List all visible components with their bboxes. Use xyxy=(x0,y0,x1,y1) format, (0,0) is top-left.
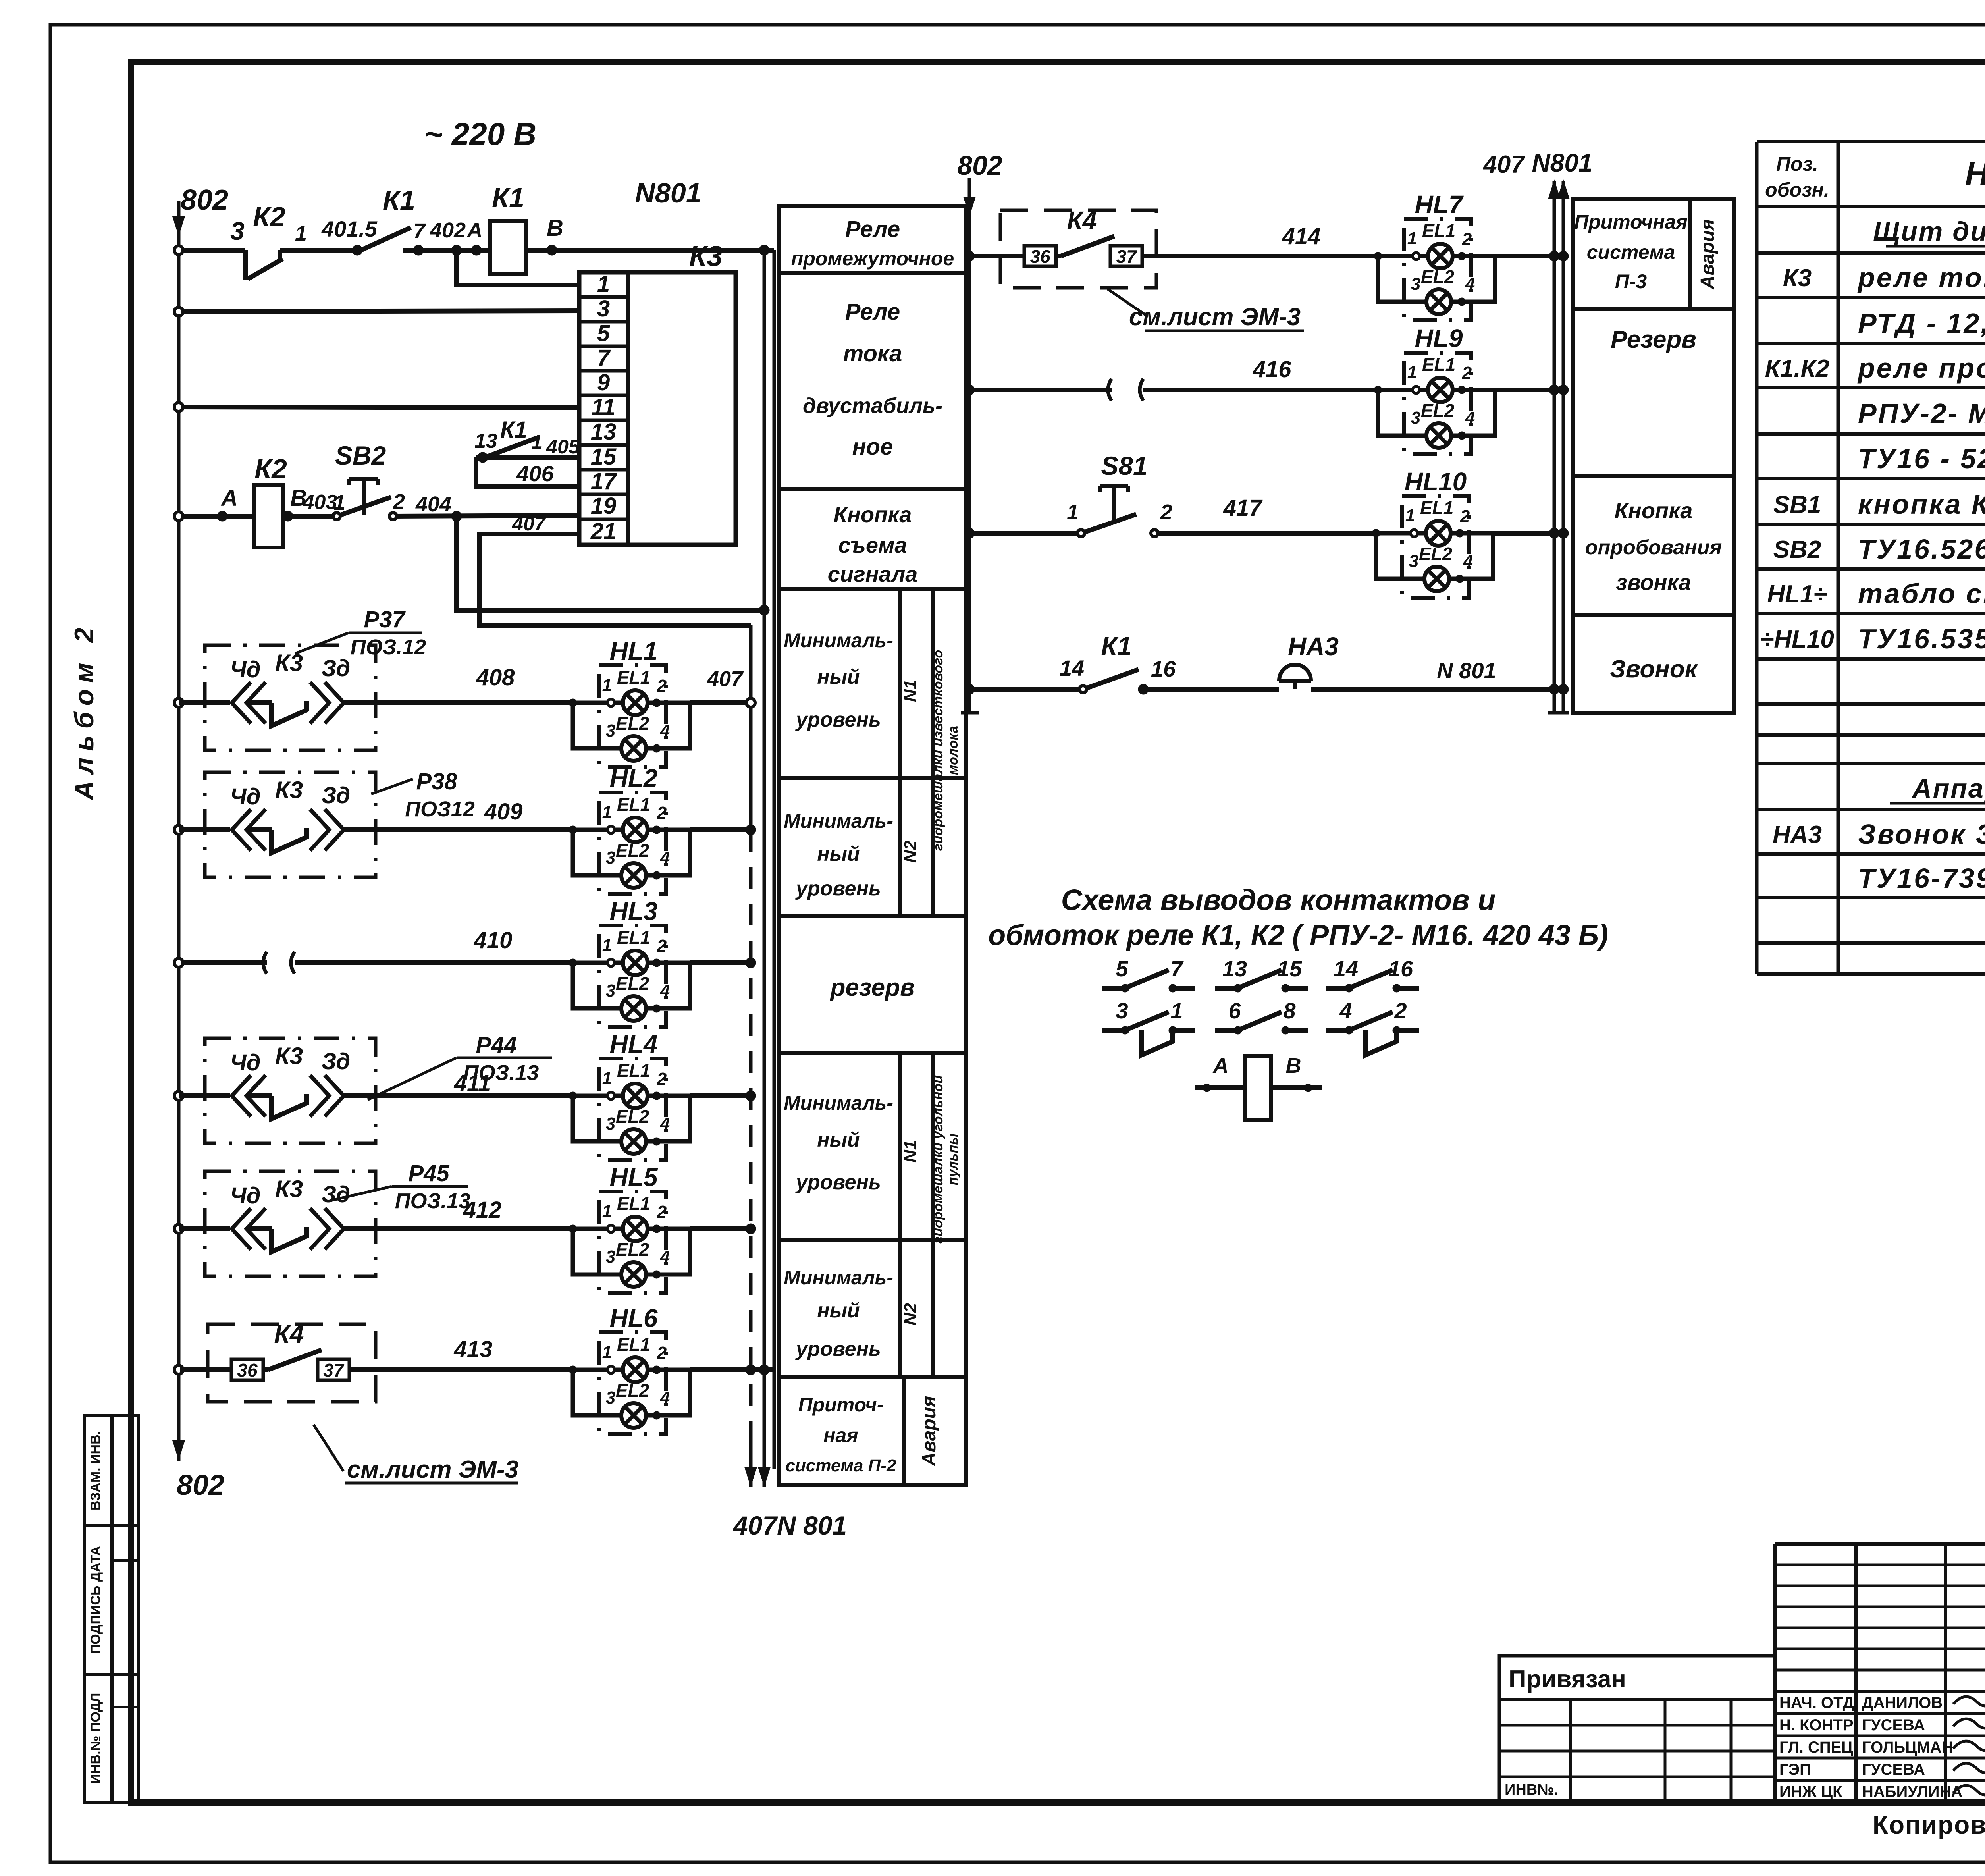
svg-text:ТУ16-739. 059-76: ТУ16-739. 059-76 xyxy=(1858,863,1985,894)
svg-text:К3: К3 xyxy=(689,241,723,272)
svg-text:кнопка КЕ-011 У3 исп.2: кнопка КЕ-011 У3 исп.2 xyxy=(1858,489,1985,520)
wire 408 to 407 line xyxy=(690,700,751,705)
svg-text:SВ2: SВ2 xyxy=(1773,536,1821,563)
contact K1 aux 13-405-15 xyxy=(476,455,579,460)
leader R45 poz.13 xyxy=(330,1186,392,1201)
wire 411 xyxy=(376,1093,573,1098)
svg-text:реле промежуточное: реле промежуточное xyxy=(1857,353,1985,384)
svg-text:гидромешалки известкового: гидромешалки известкового xyxy=(931,650,946,851)
lamp panel НL10 xyxy=(1372,496,1493,598)
svg-text:Поз.: Поз. xyxy=(1776,153,1818,175)
node bus row 409 xyxy=(174,825,183,834)
svg-text:414: 414 xyxy=(1282,224,1321,249)
svg-text:8: 8 xyxy=(1283,998,1296,1023)
svg-text:реле тока двустабильное: реле тока двустабильное xyxy=(1857,262,1985,293)
svg-text:звонка: звонка xyxy=(1616,570,1691,595)
wire 416 with break contact xyxy=(973,388,1112,392)
svg-text:НL7: НL7 xyxy=(1415,190,1464,219)
svg-text:Зд: Зд xyxy=(322,783,350,808)
svg-text:407: 407 xyxy=(512,513,546,535)
svg-text:Авария: Авария xyxy=(1697,219,1718,290)
svg-text:2: 2 xyxy=(1160,500,1172,524)
svg-text:А: А xyxy=(220,485,238,511)
lamp panel НL1 xyxy=(569,665,690,767)
svg-text:19: 19 xyxy=(591,493,617,519)
svg-text:ГУСЕВА: ГУСЕВА xyxy=(1862,1761,1925,1778)
svg-text:7: 7 xyxy=(1170,956,1184,981)
wire 417 to N801 xyxy=(1493,531,1563,536)
left margin stamp column xyxy=(85,1416,138,1803)
svg-text:Р44: Р44 xyxy=(476,1032,516,1058)
svg-text:ТУ16.526.407-79: ТУ16.526.407-79 xyxy=(1858,534,1985,565)
wire 410 to 407 line xyxy=(690,960,751,965)
lamp panel НL4 xyxy=(569,1059,690,1160)
wire 413 to N801 xyxy=(690,1367,774,1372)
leader R37 poz.12 xyxy=(295,633,349,654)
svg-text:410: 410 xyxy=(474,927,513,953)
bus 802 right xyxy=(968,178,971,713)
svg-text:ное: ное xyxy=(852,434,893,460)
svg-text:3: 3 xyxy=(597,296,610,322)
wire 417 xyxy=(1158,531,1376,536)
svg-text:Авария: Авария xyxy=(919,1396,940,1467)
svg-text:уровень: уровень xyxy=(795,708,881,731)
svg-text:система П-2: система П-2 xyxy=(786,1456,896,1475)
svg-text:1: 1 xyxy=(333,491,345,515)
wire K2 coil to SB2 xyxy=(283,514,335,519)
branch row1 to K3 terminal 1 xyxy=(457,250,579,285)
parts list table xyxy=(1755,142,1759,974)
svg-text:обмоток реле К1, К2 ( РПУ-2- М: обмоток реле К1, К2 ( РПУ-2- М16. 420 43… xyxy=(988,920,1608,951)
svg-text:НL6: НL6 xyxy=(610,1304,658,1332)
svg-text:Р38: Р38 xyxy=(416,769,457,794)
svg-text:Чд: Чд xyxy=(230,1050,261,1076)
svg-text:Аппаратура по месту: Аппаратура по месту xyxy=(1912,773,1985,804)
line 407 vertical xyxy=(749,625,753,830)
svg-text:1: 1 xyxy=(295,222,307,245)
svg-text:К3: К3 xyxy=(275,1176,303,1202)
svg-text:N801: N801 xyxy=(1532,148,1593,177)
svg-text:двустабиль-: двустабиль- xyxy=(803,394,942,418)
svg-text:ПОДПИСЬ ДАТА: ПОДПИСЬ ДАТА xyxy=(88,1546,103,1654)
bus 802 left xyxy=(177,201,181,1461)
coil K1 xyxy=(490,221,526,274)
title block xyxy=(1775,1542,1985,1546)
svg-text:Звонок: Звонок xyxy=(1610,656,1698,683)
svg-text:ПОЗ.13: ПОЗ.13 xyxy=(395,1189,471,1213)
svg-text:5: 5 xyxy=(597,320,610,346)
svg-text:К4: К4 xyxy=(274,1320,304,1348)
svg-text:÷НL10: ÷НL10 xyxy=(1760,626,1834,653)
svg-text:7: 7 xyxy=(597,345,611,371)
svg-text:Приточная: Приточная xyxy=(1574,211,1688,233)
svg-text:НА3: НА3 xyxy=(1288,632,1339,661)
svg-text:1: 1 xyxy=(1067,500,1079,524)
svg-text:S81: S81 xyxy=(1101,451,1147,480)
svg-text:ПОЗ.12: ПОЗ.12 xyxy=(351,635,426,659)
svg-text:412: 412 xyxy=(463,1197,502,1223)
svg-text:802: 802 xyxy=(177,1469,224,1501)
svg-text:7: 7 xyxy=(413,219,426,243)
svg-text:Реле: Реле xyxy=(845,216,900,242)
svg-text:401.5: 401.5 xyxy=(321,216,378,241)
wire 411 to 407 line xyxy=(690,1093,751,1098)
svg-text:В: В xyxy=(1286,1054,1301,1078)
svg-text:17: 17 xyxy=(591,469,617,494)
bus 407 N801 right pair xyxy=(1553,181,1556,713)
node bus row 410 xyxy=(174,958,183,967)
node bus row1 xyxy=(174,246,183,255)
wire row1 to K2 contact xyxy=(182,248,245,253)
wire row2 bus to K3 terminal 3 xyxy=(174,307,183,316)
wire 416 to N801 xyxy=(1495,388,1563,392)
svg-text:НL1: НL1 xyxy=(610,637,658,665)
svg-text:Щит диспетчерд. Секция 5: Щит диспетчерд. Секция 5 xyxy=(1873,216,1985,247)
svg-text:НL1÷: НL1÷ xyxy=(1767,580,1827,608)
relay block K3 xyxy=(579,272,736,545)
svg-text:НL10: НL10 xyxy=(1405,467,1467,496)
see sheet EM-3 note bottom xyxy=(314,1425,343,1471)
node bus row 413 xyxy=(174,1365,183,1374)
svg-text:405: 405 xyxy=(546,436,580,458)
svg-text:Зд: Зд xyxy=(322,1049,350,1074)
svg-text:уровень: уровень xyxy=(795,1338,881,1361)
wire 406 loop terminal 15 to 17 xyxy=(476,457,579,486)
svg-text:5: 5 xyxy=(1116,956,1128,981)
svg-text:А: А xyxy=(1212,1054,1229,1078)
svg-text:Реле: Реле xyxy=(845,299,900,325)
svg-text:9: 9 xyxy=(597,370,610,395)
wire 409 to 407 line xyxy=(690,827,751,832)
svg-text:N2: N2 xyxy=(901,840,920,863)
svg-text:403: 403 xyxy=(303,491,337,514)
bus N801 left line xyxy=(763,250,766,1487)
svg-text:13: 13 xyxy=(1222,956,1247,981)
svg-text:1: 1 xyxy=(531,431,542,453)
svg-text:ный: ный xyxy=(817,665,860,688)
svg-text:Схема выводов контактов и: Схема выводов контактов и xyxy=(1061,883,1496,916)
contact K1 NO row1 xyxy=(359,228,411,251)
svg-text:407: 407 xyxy=(1482,151,1525,178)
wire SB2 to K3 terminal 19 xyxy=(397,515,579,516)
svg-text:гидромешалки угольной: гидромешалки угольной xyxy=(931,1075,946,1244)
contact box R45 row 412 xyxy=(205,1171,376,1276)
svg-text:Звонок ЗВП-220: Звонок ЗВП-220 xyxy=(1858,819,1985,850)
svg-text:П-3: П-3 xyxy=(1615,270,1647,293)
contact box R44 row 411 xyxy=(205,1038,376,1143)
svg-text:Привязан: Привязан xyxy=(1509,1666,1626,1693)
svg-text:К3: К3 xyxy=(275,1043,303,1069)
wire N801 branch from coil K2 row xyxy=(451,511,462,521)
svg-text:ный: ный xyxy=(817,843,860,866)
svg-text:К1: К1 xyxy=(492,182,524,213)
coil K2 row xyxy=(174,512,183,521)
svg-text:21: 21 xyxy=(590,519,617,544)
contact pin diagram row 1 xyxy=(1102,986,1125,991)
svg-text:В: В xyxy=(547,215,563,241)
svg-text:3: 3 xyxy=(230,217,245,245)
svg-text:НL3: НL3 xyxy=(610,897,658,925)
svg-text:Чд: Чд xyxy=(230,657,261,683)
svg-text:Альбом 2: Альбом 2 xyxy=(69,621,99,801)
wire 408 xyxy=(376,700,573,705)
svg-text:N 801: N 801 xyxy=(1437,658,1496,683)
svg-text:НL5: НL5 xyxy=(610,1163,658,1192)
svg-text:13: 13 xyxy=(474,430,497,453)
wire 413 xyxy=(376,1367,573,1372)
wire row1 K2 to K1 contact xyxy=(280,248,357,253)
svg-text:N1: N1 xyxy=(901,1140,920,1163)
svg-text:407: 407 xyxy=(707,667,744,691)
svg-text:Зд: Зд xyxy=(322,656,350,681)
svg-text:Чд: Чд xyxy=(230,1183,261,1209)
lamp panel НL2 xyxy=(569,792,690,894)
svg-text:табло световое ТСБ-Ш-У3-01: табло световое ТСБ-Ш-У3-01 xyxy=(1858,578,1985,609)
svg-text:37: 37 xyxy=(1116,246,1137,267)
svg-text:Минималь-: Минималь- xyxy=(784,629,893,652)
svg-text:37: 37 xyxy=(323,1360,345,1380)
svg-text:ГЭП: ГЭП xyxy=(1779,1761,1811,1778)
leader R38 poz12 xyxy=(371,779,413,794)
svg-text:Минималь-: Минималь- xyxy=(784,1267,893,1289)
wire 407 from terminal 21 xyxy=(480,534,751,625)
svg-text:SВ1: SВ1 xyxy=(1773,491,1821,519)
svg-text:15: 15 xyxy=(1277,956,1302,981)
svg-text:16: 16 xyxy=(1151,656,1176,681)
svg-text:пульпы: пульпы xyxy=(946,1134,961,1186)
svg-text:Минималь-: Минималь- xyxy=(784,810,893,832)
lamp panel НL7 xyxy=(1374,219,1495,320)
svg-text:4: 4 xyxy=(1339,998,1352,1023)
svg-text:Зд: Зд xyxy=(322,1182,350,1207)
svg-text:К1: К1 xyxy=(383,185,415,216)
svg-text:НАЧ. ОТД: НАЧ. ОТД xyxy=(1779,1694,1854,1712)
svg-text:РПУ-2- М16420 У3 Б ~ 220В: РПУ-2- М16420 У3 Б ~ 220В xyxy=(1858,398,1985,429)
svg-text:Чд: Чд xyxy=(230,784,261,810)
wire row1 coil K1 to N801 xyxy=(526,248,774,253)
svg-text:3: 3 xyxy=(1116,998,1128,1023)
row 416 to HL9 xyxy=(964,385,975,395)
svg-text:ГЛ. СПЕЦ: ГЛ. СПЕЦ xyxy=(1779,1739,1853,1756)
svg-text:НL2: НL2 xyxy=(610,764,658,792)
svg-text:404: 404 xyxy=(415,492,451,516)
svg-text:14: 14 xyxy=(1060,656,1084,681)
svg-text:уровень: уровень xyxy=(795,1171,881,1194)
svg-text:N1: N1 xyxy=(901,680,920,702)
svg-text:резерв: резерв xyxy=(830,974,915,1001)
row 414 K4 to HL7 xyxy=(964,251,975,261)
svg-text:408: 408 xyxy=(476,665,515,690)
wire 412 xyxy=(376,1226,573,1231)
privyazan block xyxy=(1499,1656,1775,1803)
function label column right circuit xyxy=(1573,199,1734,713)
see sheet EM-3 note top xyxy=(1108,289,1147,316)
svg-text:15: 15 xyxy=(591,444,617,470)
svg-text:16: 16 xyxy=(1388,956,1413,981)
coil K2 xyxy=(254,485,283,548)
svg-text:Резерв: Резерв xyxy=(1611,326,1696,353)
svg-text:36: 36 xyxy=(1030,246,1050,267)
svg-text:Минималь-: Минималь- xyxy=(784,1092,893,1114)
svg-text:НА3: НА3 xyxy=(1773,821,1822,848)
svg-text:НL4: НL4 xyxy=(610,1030,658,1059)
svg-text:411: 411 xyxy=(454,1070,491,1096)
svg-text:НАБИУЛИНА: НАБИУЛИНА xyxy=(1862,1783,1962,1801)
svg-text:11: 11 xyxy=(592,394,615,420)
contact box K4 row 414 xyxy=(1000,210,1156,288)
svg-text:система: система xyxy=(1587,241,1675,263)
svg-text:ГУСЕВА: ГУСЕВА xyxy=(1862,1716,1925,1734)
svg-text:416: 416 xyxy=(1253,357,1292,382)
svg-text:ный: ный xyxy=(817,1299,860,1322)
svg-text:407N 801: 407N 801 xyxy=(732,1511,847,1540)
svg-text:36: 36 xyxy=(237,1360,258,1380)
svg-text:Приточ-: Приточ- xyxy=(798,1394,884,1416)
wire 414 xyxy=(1156,254,1378,258)
svg-text:~ 220 В: ~ 220 В xyxy=(424,116,536,152)
svg-text:К3: К3 xyxy=(275,777,303,803)
svg-text:802: 802 xyxy=(181,184,228,216)
wire 409 xyxy=(376,827,573,832)
svg-text:ДАНИЛОВ: ДАНИЛОВ xyxy=(1862,1694,1943,1712)
svg-text:обозн.: обозн. xyxy=(1765,179,1829,201)
svg-text:N2: N2 xyxy=(901,1303,920,1325)
wire row1 to coil K1 xyxy=(403,248,490,253)
svg-text:802: 802 xyxy=(957,150,1002,181)
contact box R38 row 409 xyxy=(205,772,376,877)
wire 410 with break contact xyxy=(182,960,267,965)
svg-text:см.лист ЭМ-3: см.лист ЭМ-3 xyxy=(1129,303,1301,331)
svg-text:К1: К1 xyxy=(500,417,527,443)
svg-text:тока: тока xyxy=(843,341,902,366)
leader R44 poz.13 xyxy=(368,1058,457,1100)
svg-text:А: А xyxy=(466,218,483,242)
svg-text:ИНВ№.: ИНВ№. xyxy=(1505,1782,1558,1798)
svg-text:РТД - 12, ~ 220В: РТД - 12, ~ 220В xyxy=(1858,308,1985,339)
node bus row 412 xyxy=(174,1224,183,1233)
contact pin diagram row 2 xyxy=(1102,1028,1125,1033)
svg-text:К4: К4 xyxy=(1067,206,1097,235)
node bus row 411 xyxy=(174,1091,183,1100)
svg-text:см.лист ЭМ-3: см.лист ЭМ-3 xyxy=(347,1456,518,1483)
lamp panel НL5 xyxy=(569,1192,690,1293)
svg-text:промежуточное: промежуточное xyxy=(791,247,954,270)
svg-text:14: 14 xyxy=(1334,956,1358,981)
relay coil pin diagram xyxy=(1195,1085,1245,1090)
svg-text:съема: съема xyxy=(838,532,907,557)
svg-text:402: 402 xyxy=(430,218,466,242)
wire row3 bus to K3 terminal 11 xyxy=(174,403,183,411)
svg-text:ТУ16.535.424-79: ТУ16.535.424-79 xyxy=(1858,623,1985,654)
svg-text:Р45: Р45 xyxy=(408,1161,449,1186)
svg-text:К2: К2 xyxy=(253,201,285,232)
svg-text:ный: ный xyxy=(817,1128,860,1151)
svg-text:417: 417 xyxy=(1223,495,1263,521)
svg-text:Н. КОНТР: Н. КОНТР xyxy=(1779,1716,1854,1734)
svg-text:К3: К3 xyxy=(1783,264,1812,292)
svg-text:ТУ16 - 52.3331-78: ТУ16 - 52.3331-78 xyxy=(1858,443,1985,474)
svg-text:406: 406 xyxy=(516,461,554,486)
svg-text:13: 13 xyxy=(591,419,617,445)
svg-text:409: 409 xyxy=(484,799,523,825)
svg-text:Р37: Р37 xyxy=(364,607,406,632)
row 418 contact K1 bell HA3 xyxy=(964,684,975,694)
svg-text:ВЗАМ. ИНВ.: ВЗАМ. ИНВ. xyxy=(88,1431,103,1510)
svg-text:1: 1 xyxy=(1170,998,1183,1023)
svg-text:К2: К2 xyxy=(254,453,287,484)
svg-text:Кнопка: Кнопка xyxy=(834,502,912,527)
wire 412 to 407 line xyxy=(690,1226,751,1231)
lamp panel НL6 xyxy=(569,1332,690,1434)
svg-text:ГОЛЬЦМАН: ГОЛЬЦМАН xyxy=(1862,1739,1953,1756)
svg-text:ПОЗ12: ПОЗ12 xyxy=(405,797,475,821)
svg-text:молока: молока xyxy=(946,726,961,775)
svg-text:SВ2: SВ2 xyxy=(335,441,386,470)
svg-text:сигнала: сигнала xyxy=(828,561,918,586)
svg-text:Наименование: Наименование xyxy=(1965,156,1985,192)
svg-text:1: 1 xyxy=(597,271,610,297)
lamp panel НL3 xyxy=(569,925,690,1027)
svg-text:6: 6 xyxy=(1228,998,1241,1023)
row 417 button S81 to HL10 xyxy=(964,528,975,538)
svg-text:2: 2 xyxy=(1394,998,1407,1023)
svg-text:опробования: опробования xyxy=(1585,536,1722,559)
svg-text:К1.К2: К1.К2 xyxy=(1765,355,1829,382)
svg-text:Копировал: Коршунова: Копировал: Коршунова xyxy=(1873,1810,1985,1839)
contact box K4 row 413 xyxy=(208,1324,376,1402)
wire 414 to N801 xyxy=(1495,254,1563,258)
contact box R37 row 408 xyxy=(205,645,376,750)
svg-text:N801: N801 xyxy=(635,177,701,208)
svg-text:НL9: НL9 xyxy=(1415,324,1463,353)
lamp panel НL9 xyxy=(1374,353,1495,454)
svg-text:ИНЖ ЦК: ИНЖ ЦК xyxy=(1779,1783,1842,1801)
svg-text:К1: К1 xyxy=(1101,631,1131,661)
wire 418 to N801 xyxy=(1311,687,1563,692)
svg-text:уровень: уровень xyxy=(795,877,881,900)
svg-text:Кнопка: Кнопка xyxy=(1615,498,1693,523)
svg-text:ная: ная xyxy=(823,1424,858,1446)
svg-text:2: 2 xyxy=(393,490,405,514)
node bus row 408 xyxy=(174,698,183,707)
svg-text:ИНВ.№ ПОДЛ: ИНВ.№ ПОДЛ xyxy=(88,1693,103,1784)
svg-text:413: 413 xyxy=(454,1336,493,1362)
function label column left circuit xyxy=(779,206,966,1485)
bus N801 right line xyxy=(773,250,776,1469)
